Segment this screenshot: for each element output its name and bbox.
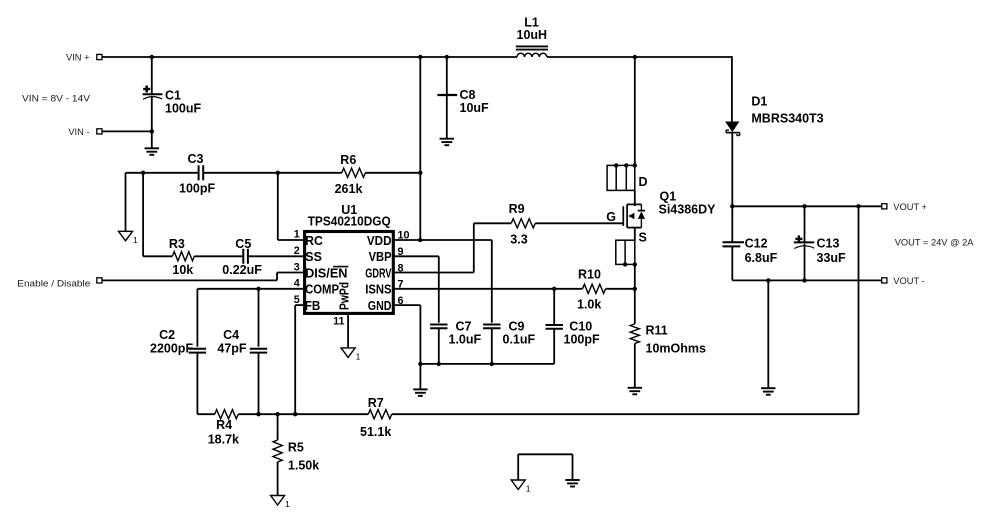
ground (earth) below C1: [145, 131, 159, 154]
capacitor C4 47pF: [217, 289, 267, 414]
svg-text:C3: C3: [188, 152, 204, 166]
svg-text:10uH: 10uH: [517, 28, 548, 42]
junction RC rail at R3 branch: [141, 171, 145, 175]
wire R4 to R7: [238, 413, 368, 415]
svg-text:100pF: 100pF: [564, 333, 600, 347]
capacitor C7 1.0uF: [430, 320, 481, 364]
ground (analog 1) below U1: [341, 348, 361, 362]
svg-text:VIN -: VIN -: [68, 127, 89, 137]
junction feedback row at R5: [275, 412, 279, 416]
svg-text:C1: C1: [165, 89, 181, 103]
ground (analog 1) left: [119, 231, 139, 245]
wire VIN- (terminal to C1): [102, 130, 152, 132]
capacitor C13 33uF (polarized): [794, 206, 846, 280]
svg-text:51.1k: 51.1k: [360, 425, 391, 439]
junction source node at R10: [633, 287, 637, 291]
U1 pin label SS: [305, 250, 322, 264]
svg-text:1.0uF: 1.0uF: [449, 333, 482, 347]
U1 pin number 2: [294, 245, 300, 257]
U1 pin number 10: [398, 230, 410, 242]
svg-text:S: S: [639, 231, 647, 245]
terminal VIN+: [66, 53, 102, 63]
terminal Enable/Disable: [17, 278, 102, 289]
label VOUT = 24V @ 2A: [895, 237, 975, 247]
svg-text:VIN +: VIN +: [66, 53, 90, 63]
svg-text:10mOhms: 10mOhms: [646, 342, 706, 356]
svg-text:0.1uF: 0.1uF: [503, 333, 536, 347]
svg-text:VOUT = 24V @ 2A: VOUT = 24V @ 2A: [895, 237, 975, 247]
svg-text:100pF: 100pF: [179, 182, 215, 196]
wire feedback row (C2 to R4): [197, 413, 214, 415]
svg-text:VOUT -: VOUT -: [893, 276, 924, 286]
wire to analog ground 1: [125, 173, 127, 232]
capacitor C1 100uF (polarized): [143, 57, 202, 131]
wire U1 pin 11 to analog ground: [347, 313, 349, 348]
svg-text:0.22uF: 0.22uF: [222, 263, 262, 277]
resistor R11 10mOhms: [630, 324, 706, 356]
svg-text:VOUT +: VOUT +: [893, 202, 927, 212]
junction COMP at C4: [256, 287, 260, 291]
inductor L1 10uH: [516, 16, 548, 58]
svg-text:PwPd: PwPd: [338, 282, 352, 310]
svg-text:1.0k: 1.0k: [577, 298, 601, 312]
wire R11 to ground: [634, 344, 636, 388]
svg-text:Enable / Disable: Enable / Disable: [17, 279, 90, 289]
wire D1 anode (rail corner down): [731, 56, 733, 121]
svg-text:ISNS: ISNS: [365, 283, 391, 297]
U1 pin number 3: [294, 261, 300, 273]
junction feedback row at FB: [293, 412, 297, 416]
wire enable to DIS/EN pin 3: [102, 273, 303, 281]
svg-text:D: D: [639, 175, 648, 189]
wire VDD to C9: [420, 240, 492, 323]
wire D1 cathode to VOUT+ rail: [731, 133, 733, 207]
U1 pin label VDD: [367, 234, 392, 248]
wire RC junction down to R3: [143, 173, 172, 256]
capacitor C12 6.8uF: [723, 206, 778, 280]
capacitor C5 0.22uF: [222, 237, 262, 277]
svg-text:VIN = 8V - 14V: VIN = 8V - 14V: [22, 94, 91, 104]
wire Q1 channel to source block: [635, 228, 647, 245]
resistor R4 18.7k: [208, 410, 239, 447]
svg-text:6.8uF: 6.8uF: [745, 251, 778, 265]
terminal VOUT+: [882, 202, 927, 212]
svg-text:VDD: VDD: [367, 234, 392, 248]
resistor R10 1.0k: [577, 268, 606, 312]
svg-text:R7: R7: [368, 396, 384, 410]
wire COMP pin 4: [197, 288, 303, 290]
transistor Q1 drain pin block: [607, 163, 647, 190]
svg-text:3: 3: [294, 261, 300, 273]
wire VOUT+ rail: [732, 205, 882, 207]
svg-text:R5: R5: [288, 441, 304, 455]
svg-text:C2: C2: [159, 328, 175, 342]
svg-text:COMP: COMP: [305, 283, 339, 297]
svg-text:47pF: 47pF: [217, 342, 247, 356]
svg-text:R9: R9: [509, 202, 525, 216]
svg-text:100uF: 100uF: [165, 102, 201, 116]
U1 pin label GDRV: [365, 266, 392, 280]
wire GND pin 6: [394, 305, 420, 364]
ground (earth) tie: [565, 480, 579, 487]
wire R6 to VDD branch: [365, 172, 420, 174]
wire VOUT- rail: [732, 279, 882, 281]
junction ISNS at C10: [552, 287, 556, 291]
junction VOUT+ at C12: [730, 204, 734, 208]
U1 pin number 5: [294, 294, 300, 306]
svg-text:5: 5: [294, 294, 300, 306]
svg-text:D1: D1: [751, 95, 767, 109]
junction VOUT- at C13: [802, 278, 806, 282]
wire FB pin 5 down: [295, 305, 303, 414]
svg-text:4: 4: [294, 278, 300, 290]
wire ISNS to R10: [554, 288, 582, 290]
junction VOUT+ at feedback tap: [856, 204, 860, 208]
wire VBP pin 9 to C7: [394, 256, 439, 323]
transistor Q1 Si4386DY (N-MOSFET symbol): [606, 190, 716, 228]
wire bypass ground row: [420, 363, 554, 365]
svg-text:1: 1: [356, 351, 361, 361]
U1 pin number 11: [333, 316, 344, 328]
junction VDD node: [418, 238, 422, 242]
junction at Q1 drain branch: [633, 55, 637, 59]
svg-text:C5: C5: [235, 237, 251, 251]
wire node RC (rail to pin 1): [278, 173, 303, 240]
U1 label PwPd: [338, 282, 352, 310]
junction at C1 top: [150, 55, 154, 59]
svg-text:10k: 10k: [172, 263, 193, 277]
svg-text:1: 1: [294, 229, 300, 241]
ground (earth) below C8: [440, 139, 454, 146]
wire source node to R11: [634, 289, 636, 324]
wire ISNS pin 7: [394, 288, 554, 290]
resistor R6 261k: [335, 153, 366, 196]
junction at C8 top: [445, 55, 449, 59]
svg-text:SS: SS: [305, 250, 322, 264]
svg-text:C8: C8: [460, 88, 476, 102]
wire switch-node rail (L1 to D1 anode): [547, 56, 732, 58]
wire Q1 source to sense node: [634, 264, 636, 288]
U1 pin number 1: [294, 229, 300, 241]
svg-text:VBP: VBP: [369, 250, 392, 264]
svg-text:R4: R4: [216, 418, 232, 432]
svg-text:C12: C12: [745, 237, 768, 251]
svg-text:C10: C10: [569, 320, 592, 334]
U1 pin number 4: [294, 278, 300, 290]
svg-text:3.3: 3.3: [510, 233, 527, 247]
wire RC rail (C3 to R6): [203, 172, 342, 174]
svg-text:FB: FB: [305, 299, 321, 313]
wire R3 to C5: [194, 255, 243, 257]
ground (earth) below R11: [628, 388, 642, 395]
junction VOUT- at ground stem: [766, 278, 770, 282]
U1 pin label VBP: [369, 250, 392, 264]
svg-text:C4: C4: [223, 328, 239, 342]
svg-text:261k: 261k: [335, 182, 363, 196]
svg-text:Si4386DY: Si4386DY: [659, 203, 717, 217]
ground (analog 1) below R5: [271, 496, 291, 510]
U1 pin number 6: [398, 295, 404, 307]
svg-text:RC: RC: [305, 234, 323, 248]
svg-text:R6: R6: [340, 153, 356, 167]
junction VOUT+ at C13: [802, 204, 806, 208]
svg-text:G: G: [606, 210, 616, 224]
junction RC rail at RC-pin branch: [276, 171, 280, 175]
junction ground row at GND pin: [418, 362, 422, 366]
wire R9 to Q1 gate: [535, 222, 623, 224]
resistor R5 1.50k: [273, 440, 319, 473]
junction ground row at C9: [490, 362, 494, 366]
svg-text:33uF: 33uF: [817, 251, 847, 265]
wire GDRV pin 8 to R9: [394, 223, 511, 272]
junction at C1 bottom: [150, 129, 154, 133]
wire VDD branch vertical (top rail to VDD pin): [419, 57, 421, 240]
svg-text:1: 1: [285, 499, 290, 509]
svg-text:2200pF: 2200pF: [150, 342, 193, 356]
wire R10 to Q1 source node: [606, 288, 635, 290]
U1 pin label DIS/EN: [305, 266, 348, 280]
op-amp/controller U1 TPS40210DGQ body: [305, 203, 394, 314]
junction at R6/VDD branch top: [418, 55, 422, 59]
wire VDD pin 10: [394, 239, 420, 241]
ground (earth) below bypass row: [413, 364, 427, 396]
junction R6/VDD vertical: [418, 171, 422, 175]
svg-text:C13: C13: [817, 237, 840, 251]
U1 pin number 8: [398, 262, 404, 274]
svg-text:11: 11: [333, 316, 344, 328]
wire VIN+ top rail (VIN+ terminal to L1): [102, 56, 517, 58]
diode D1 MBRS340T3 (schottky): [725, 95, 824, 136]
U1 pin label ISNS: [365, 283, 391, 297]
U1 pin label GND: [368, 299, 392, 313]
wire R5 to analog ground: [277, 462, 279, 496]
wire C10 top (ISNS junction down): [553, 289, 555, 325]
junction ground row at C7: [437, 362, 441, 366]
terminal VIN-: [68, 127, 102, 137]
svg-text:1: 1: [133, 235, 138, 245]
svg-text:GDRV: GDRV: [365, 266, 392, 280]
svg-text:C7: C7: [456, 320, 472, 334]
svg-text:10uF: 10uF: [460, 101, 490, 115]
capacitor C10 100pF: [546, 320, 600, 364]
svg-text:R10: R10: [578, 268, 601, 282]
U1 pin number 9: [398, 246, 404, 258]
transistor Q1 source pin block: [616, 240, 637, 266]
wire ground-tie bracket: [518, 454, 572, 480]
svg-text:1: 1: [526, 484, 531, 494]
U1 pin label RC: [305, 234, 323, 248]
ground (earth) below VOUT- rail: [761, 280, 775, 394]
wire C5 to SS pin 2: [248, 255, 303, 257]
wire RC timing rail left segment: [126, 172, 199, 174]
svg-text:MBRS340T3: MBRS340T3: [751, 112, 823, 126]
svg-text:18.7k: 18.7k: [208, 433, 239, 447]
svg-text:DIS/EN: DIS/EN: [305, 266, 347, 280]
resistor R7 51.1k: [360, 396, 392, 439]
svg-text:R3: R3: [169, 237, 185, 251]
capacitor C3 100pF: [179, 152, 215, 196]
terminal VOUT-: [882, 276, 925, 286]
capacitor C2 2200pF: [150, 289, 206, 414]
svg-text:TPS40210DGQ: TPS40210DGQ: [308, 214, 391, 228]
svg-text:R11: R11: [646, 324, 668, 338]
capacitor C9 0.1uF: [483, 320, 535, 364]
U1 pin label FB: [305, 299, 321, 313]
resistor R3 10k: [169, 237, 194, 277]
junction feedback row at C4: [256, 412, 260, 416]
label VIN = 8V - 14V: [22, 94, 91, 104]
wire Q1 drain block to channel: [634, 190, 636, 204]
svg-text:2: 2: [294, 245, 300, 257]
wire R5 top: [277, 414, 279, 440]
svg-text:GND: GND: [368, 299, 392, 313]
svg-text:Q1: Q1: [660, 190, 677, 204]
U1 pin label COMP: [305, 283, 339, 297]
capacitor C8 10uF: [437, 57, 489, 139]
svg-text:1.50k: 1.50k: [288, 459, 319, 473]
svg-text:C9: C9: [509, 320, 525, 334]
wire R7 to VOUT+ tap: [392, 206, 859, 414]
wire Q1 drain branch (top rail down): [634, 57, 636, 165]
U1 pin number 7: [398, 279, 404, 291]
ground (analog 1) tie: [511, 480, 531, 494]
resistor R9 3.3: [509, 202, 536, 247]
